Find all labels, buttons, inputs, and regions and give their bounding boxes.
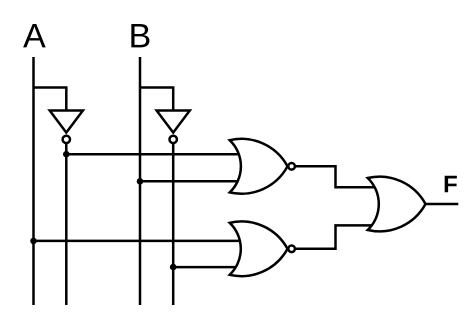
NOR gate U4 output bubble: [288, 246, 295, 253]
wire: B' (NOT B) vertical bus: [172, 144, 175, 305]
inverter U2 (NOT gate on B) triangle: [157, 111, 190, 133]
NOR gate U4 (lower) body: [230, 221, 288, 276]
wire: A' to NOR U3 top input: [66, 153, 245, 156]
OR gate U5 (output stage) body: [368, 177, 426, 232]
inverter U1 (NOT gate on A) triangle: [50, 111, 83, 133]
NOR gate U3 output bubble: [288, 163, 295, 170]
node: junction A' with NOR U3 top input: [63, 151, 70, 158]
wire: input B vertical bus: [139, 57, 142, 305]
wire: NOR U4 output to OR U5 bottom input: [296, 225, 383, 248]
inverter U2 output bubble: [170, 136, 177, 143]
wire: A' (NOT A) vertical bus: [65, 144, 68, 305]
label: input B: [131, 24, 149, 47]
wire: branch from B to inverter U2 input: [140, 88, 173, 112]
wire: NOR U3 output to OR U5 top input: [296, 166, 383, 187]
NOR gate U3 (upper) body: [230, 139, 288, 194]
node: junction B' with NOR U4 bottom input: [170, 264, 177, 271]
wire: B to NOR U3 bottom input: [140, 180, 245, 183]
wire: A to NOR U4 top input: [34, 240, 246, 243]
wire: input A vertical bus: [32, 57, 35, 305]
node: junction B with NOR U3 bottom input: [137, 178, 144, 185]
label: output F: [445, 176, 457, 193]
wire: OR U5 output to F: [426, 203, 459, 206]
node: junction A with NOR U4 top input: [30, 238, 37, 245]
wire: B' to NOR U4 bottom input: [173, 266, 245, 269]
label: input A: [23, 24, 46, 47]
wire: branch from A to inverter U1 input: [34, 88, 67, 112]
inverter U1 output bubble: [63, 136, 70, 143]
